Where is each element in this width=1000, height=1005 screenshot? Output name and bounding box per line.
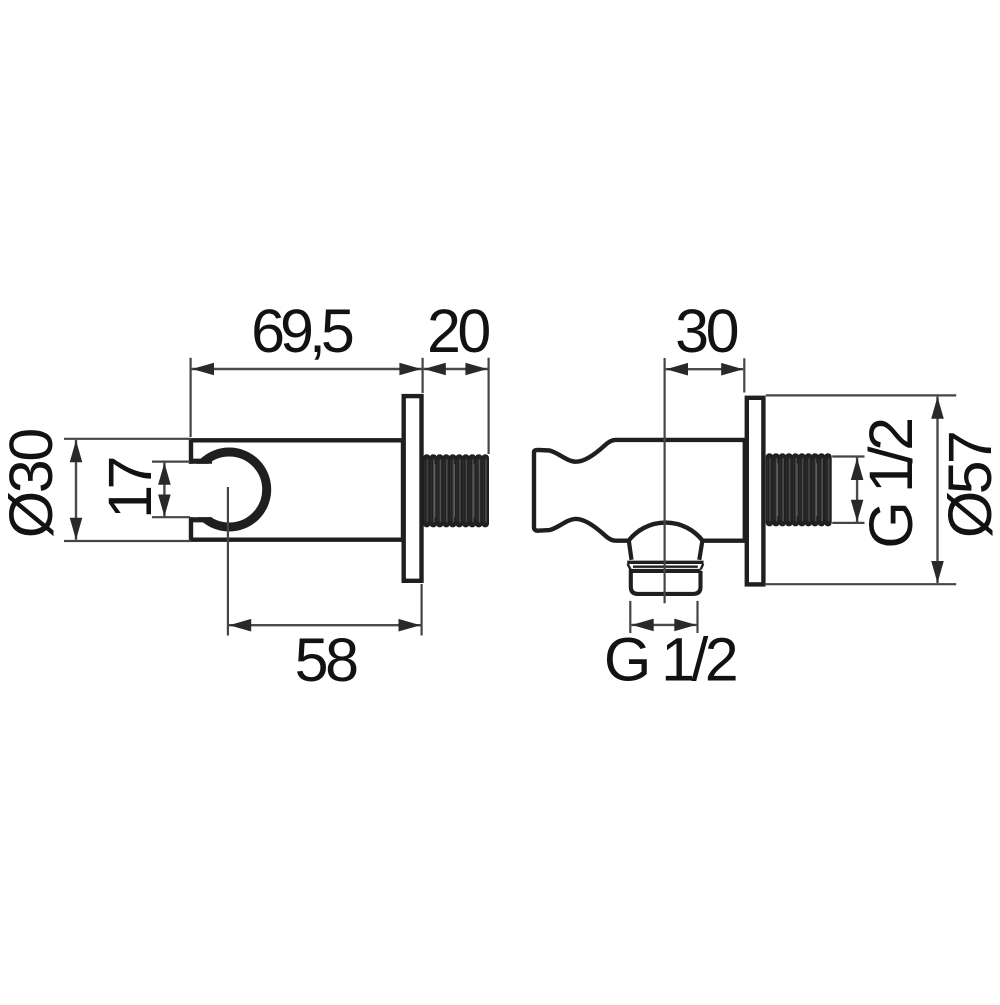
extension line G12 right bottom [832,522,864,524]
threaded inlet stub (left view) [424,455,489,527]
arrowheads O57 [931,397,944,583]
extension line mid (flange face) [422,358,424,393]
centerline (right view) [663,358,665,603]
svg-text:17: 17 [96,459,164,519]
dimension line 30 [666,368,744,370]
svg-text:20: 20 [427,297,489,365]
svg-text:69,5: 69,5 [251,297,353,365]
dimension line O57 [936,397,938,583]
dimension line O30 [75,440,77,540]
extension line right (thread end) [488,358,490,454]
ring opening slot [185,464,229,517]
extension line O57 bottom [766,583,956,585]
arrowheads G12 bottom [632,619,697,632]
arrowheads 17 [158,463,171,517]
centerline through ring [227,487,229,636]
holder ring (C-shape) [192,452,267,527]
extension line G12 right top [832,455,864,457]
outlet nut chamfer tick left [628,564,631,570]
extension line 17 top [152,461,190,463]
svg-text:G 1/2: G 1/2 [857,420,925,549]
outlet nut [629,571,701,594]
extension line 17 bottom [152,516,190,518]
extension line O57 top [766,394,956,396]
arrowheads 20 [424,363,488,376]
arrowheads 58 [229,619,420,632]
ring lip bottom [189,517,212,522]
ring lip top [189,459,212,464]
wall flange (left view) [404,396,422,581]
outlet neck right side [699,540,702,560]
outlet nut chamfer tick right [701,564,704,570]
holder body (side view) [191,440,403,539]
bracket profile (front view) [534,440,745,541]
dimension line 17 [163,462,165,517]
wall flange (right view) [747,398,764,585]
dimension line 58 [229,624,421,626]
dimension line 20 [424,368,488,370]
outlet collar line 2 [633,566,698,568]
svg-text:Ø30: Ø30 [0,430,65,539]
arrowheads G12 right [851,458,864,522]
extension line O30 top [64,438,191,440]
svg-text:Ø57: Ø57 [936,433,1000,538]
extension line left (69,5) [190,358,192,437]
svg-text:G 1/2: G 1/2 [604,626,736,694]
svg-text:30: 30 [675,297,737,365]
svg-text:58: 58 [295,626,357,694]
extension line G12 bottom right [696,601,698,633]
extension line O30 bottom [64,540,191,542]
extension line G12 bottom left [629,601,631,633]
extension line 30 right [743,358,745,392]
extension line 58 right [421,584,423,636]
threaded inlet stub (right view) [766,454,831,526]
arrowheads O30 [70,440,83,540]
arrowheads 69,5 [192,363,421,376]
outlet neck left side [629,540,632,560]
arrowheads 30 [666,363,743,376]
dimension line 69,5 [192,368,422,370]
dimension line G12 bottom [631,624,696,626]
outlet collar line 1 [627,561,703,564]
dimension line G12 right [856,458,858,523]
